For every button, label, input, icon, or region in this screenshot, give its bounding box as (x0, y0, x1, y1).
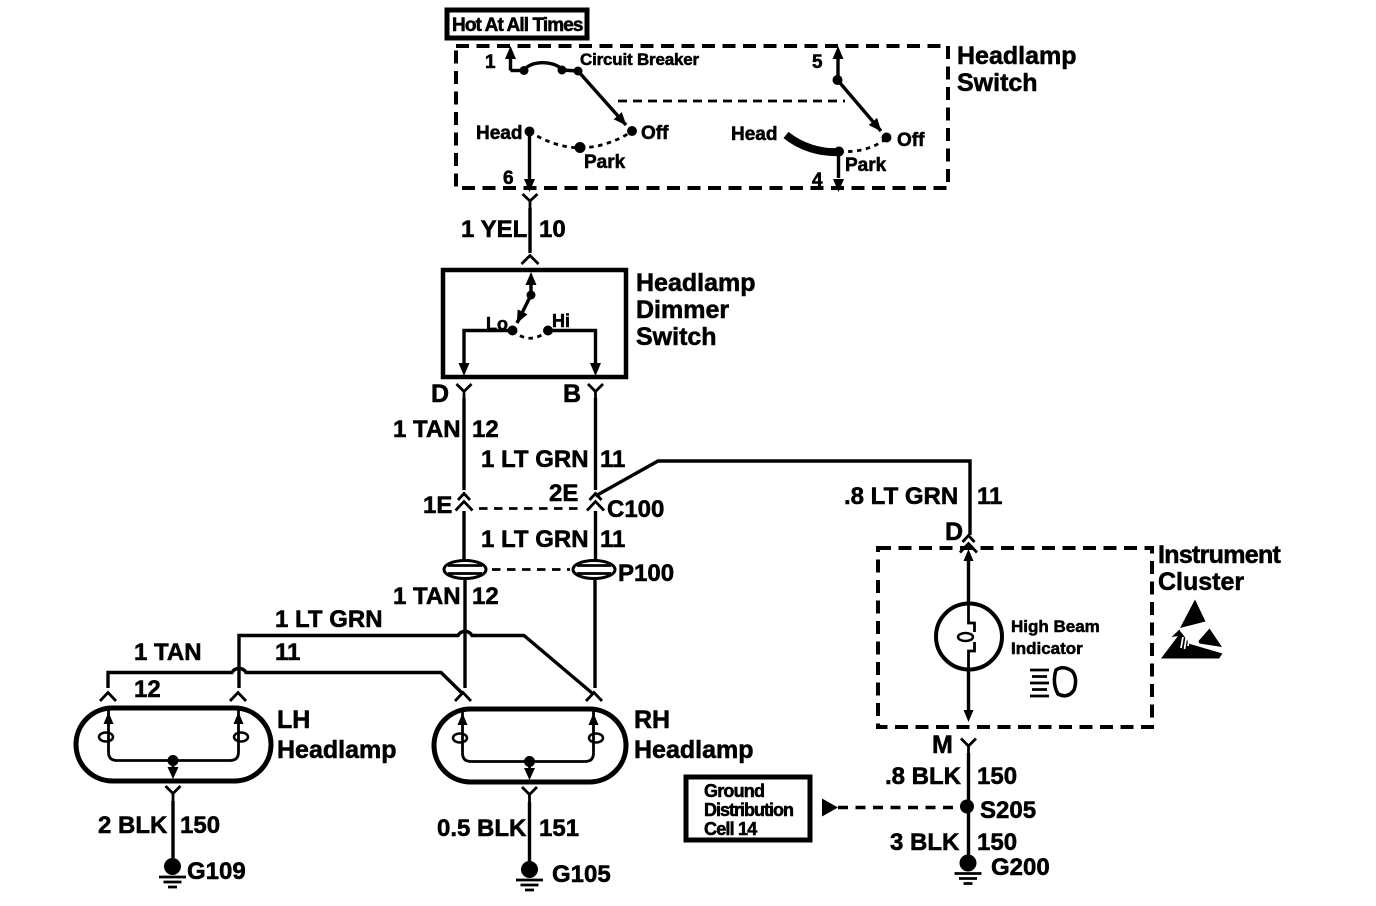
svg-text:Cell 14: Cell 14 (704, 819, 757, 839)
svg-text:Switch: Switch (636, 323, 717, 351)
svg-text:C100: C100 (607, 496, 664, 523)
node switch pivot left (574, 67, 583, 76)
connector chevron RH left terminal (455, 693, 471, 702)
connector fork D (457, 384, 472, 398)
wire pin1 to circuit breaker (511, 69, 525, 72)
connector chevron LH left terminal (100, 693, 116, 702)
headlamp switch internal dashed divider (618, 100, 845, 103)
connector half 1E (456, 494, 473, 511)
instrument cluster dashed box (878, 548, 1152, 727)
node dimmer pivot (527, 291, 536, 300)
wire 0.5 BLK 151 (528, 802, 531, 861)
svg-text:Headlamp: Headlamp (636, 269, 755, 297)
dashed wire to S205 (838, 806, 956, 809)
svg-text:150: 150 (977, 763, 1017, 790)
wire Hi to B leg (548, 331, 596, 364)
svg-text:Instrument: Instrument (1158, 541, 1282, 569)
svg-text:0.5 BLK: 0.5 BLK (437, 815, 527, 842)
svg-text:Head: Head (476, 123, 522, 144)
RH headlamp body (434, 709, 626, 782)
svg-text:B: B (563, 380, 581, 408)
ground distribution box (686, 777, 810, 840)
node pivot right (833, 75, 843, 85)
node circuit breaker left (520, 66, 529, 75)
svg-text:LH: LH (277, 706, 310, 734)
node S205 (960, 800, 974, 814)
svg-text:1 LT GRN: 1 LT GRN (481, 446, 589, 473)
svg-text:Distribution: Distribution (704, 800, 793, 820)
svg-text:Off: Off (897, 130, 925, 151)
svg-text:12: 12 (472, 583, 499, 610)
svg-text:Head: Head (731, 124, 777, 145)
svg-text:2E: 2E (549, 480, 578, 507)
svg-text:G109: G109 (187, 858, 246, 885)
wire lt grn branch horizontal with hop (239, 631, 592, 693)
svg-text:11: 11 (275, 639, 300, 666)
svg-text:Hi: Hi (552, 311, 570, 331)
Hot At All Times box (447, 10, 587, 38)
headlamp dimmer switch box U-dimmer (443, 270, 626, 377)
svg-text:150: 150 (180, 812, 220, 839)
dashed travel arc right (839, 140, 885, 152)
svg-text:150: 150 (977, 829, 1017, 856)
wire B lt grn down to 2E (594, 398, 597, 490)
svg-text:11: 11 (977, 483, 1002, 510)
pin 5 terminal arrow (836, 59, 839, 80)
svg-text:12: 12 (134, 676, 161, 703)
svg-text:G105: G105 (552, 861, 611, 888)
headlamp switch dashed box (456, 46, 948, 188)
dashed connector line C100 (479, 507, 584, 510)
switch blade 1 to Off (578, 71, 626, 125)
wire tan branch horizontal with hop (108, 668, 462, 693)
ground distribution arrow (822, 799, 838, 817)
node Off right (882, 133, 892, 143)
svg-text:P100: P100 (618, 560, 674, 587)
svg-text:Headlamp: Headlamp (957, 42, 1076, 70)
connector chevron LH right terminal (230, 693, 246, 702)
pin 1 terminal arrow (509, 59, 512, 71)
dimmer switch label (636, 269, 755, 351)
svg-text:1 TAN: 1 TAN (393, 583, 461, 610)
svg-text:Park: Park (584, 152, 626, 173)
wire tan below P100 to RH lamp (463, 579, 466, 689)
connector half D cluster (960, 536, 977, 553)
ground G200 (955, 855, 982, 884)
wire lt grn below P100 to RH lamp (593, 579, 596, 689)
svg-text:Cluster: Cluster (1158, 568, 1244, 596)
dimmer input arrow (529, 285, 532, 295)
svg-text:.8 LT GRN: .8 LT GRN (844, 483, 958, 510)
wire Lo to D leg (464, 331, 513, 364)
dashed travel arc left (530, 132, 633, 148)
wire M to ground (967, 753, 970, 855)
svg-text:D: D (431, 380, 449, 408)
connector fork below LH lamp (166, 786, 181, 801)
connector fork M (961, 739, 976, 754)
node Head left (525, 127, 535, 137)
svg-text:1 TAN: 1 TAN (134, 639, 202, 666)
svg-text:11: 11 (600, 446, 625, 473)
RH headlamp label (634, 706, 753, 764)
svg-text:4: 4 (812, 170, 823, 191)
svg-text:RH: RH (634, 706, 670, 734)
svg-text:6: 6 (503, 168, 514, 189)
connector chevron RH right terminal (586, 693, 602, 702)
instrument cluster label (1158, 541, 1282, 596)
pin 4 wire with down arrow (837, 152, 840, 179)
connector fork below switch pin 6 (523, 194, 538, 208)
ground G109 (159, 858, 186, 887)
svg-text:.8 BLK: .8 BLK (885, 763, 962, 790)
svg-text:1E: 1E (423, 492, 452, 519)
high beam indicator label (1011, 617, 1100, 658)
svg-text:3 BLK: 3 BLK (890, 829, 960, 856)
svg-text:1 LT GRN: 1 LT GRN (275, 606, 383, 633)
grommet P100 right (573, 561, 615, 579)
svg-text:151: 151 (539, 815, 579, 842)
connector fork below RH lamp (522, 787, 537, 802)
svg-text:1 YEL: 1 YEL (461, 216, 527, 243)
svg-text:S205: S205 (980, 797, 1036, 824)
svg-text:Dimmer: Dimmer (636, 296, 729, 324)
connector chevron above dimmer (522, 256, 539, 265)
node blade end right (834, 147, 844, 157)
connector fork B (588, 384, 603, 398)
switch blade right to Off (838, 80, 882, 131)
wire D tan down to 1E (462, 398, 465, 490)
dashed arc Lo-Hi (513, 331, 549, 339)
svg-text:G200: G200 (991, 854, 1050, 881)
svg-text:2 BLK: 2 BLK (98, 812, 168, 839)
svg-text:Off: Off (641, 123, 669, 144)
node Off left (627, 126, 637, 136)
node circuit breaker mid (558, 66, 567, 75)
RH lamp internals (453, 711, 603, 780)
high beam icon (1030, 668, 1076, 696)
thick blade Head-Park right (786, 135, 839, 152)
node Park left (575, 142, 586, 153)
wire 2E to P100 (594, 511, 597, 560)
svg-text:1: 1 (485, 52, 496, 73)
dashed line P100 (492, 568, 570, 571)
cluster wire in with up arrow (967, 553, 970, 604)
svg-text:Headlamp: Headlamp (277, 736, 396, 764)
svg-text:Park: Park (845, 155, 887, 176)
connector half 2E (587, 494, 604, 511)
svg-text:1 TAN: 1 TAN (393, 416, 461, 443)
grommet P100 left (444, 561, 486, 579)
svg-text:Ground: Ground (704, 781, 764, 801)
wire 2 BLK 150 (171, 801, 174, 858)
ground G105 (516, 861, 543, 890)
svg-text:11: 11 (600, 526, 625, 553)
LH headlamp label (277, 706, 396, 764)
branch diagonal 2E to instrument cluster run (596, 461, 971, 535)
node Lo (508, 326, 518, 336)
cluster wire out with down arrow (967, 670, 970, 710)
svg-text:D: D (945, 518, 963, 546)
svg-text:12: 12 (472, 416, 499, 443)
wire CB mid to pivot (562, 70, 578, 71)
pin 6 wire with down arrow (528, 132, 531, 181)
svg-text:Indicator: Indicator (1011, 639, 1083, 658)
ESD symbol (1161, 600, 1223, 659)
wire 1E to P100 (462, 511, 465, 560)
svg-text:Headlamp: Headlamp (634, 736, 753, 764)
svg-text:High Beam: High Beam (1011, 617, 1100, 636)
wire 1 YEL 10 (528, 208, 531, 253)
dimmer blade to Lo (517, 295, 531, 323)
high beam indicator lamp (936, 604, 1002, 671)
svg-text:Circuit Breaker: Circuit Breaker (580, 50, 699, 69)
svg-text:5: 5 (812, 52, 823, 73)
LH headlamp body (76, 708, 271, 781)
node Hi (543, 326, 553, 336)
headlamp switch label (957, 42, 1076, 97)
svg-text:1 LT GRN: 1 LT GRN (481, 526, 589, 553)
svg-text:10: 10 (539, 216, 566, 243)
LH lamp internals (99, 710, 248, 779)
svg-text:Switch: Switch (957, 69, 1038, 97)
svg-text:M: M (932, 731, 953, 759)
circuit breaker CB bump (524, 63, 562, 71)
svg-text:Hot At All Times: Hot At All Times (452, 15, 583, 36)
